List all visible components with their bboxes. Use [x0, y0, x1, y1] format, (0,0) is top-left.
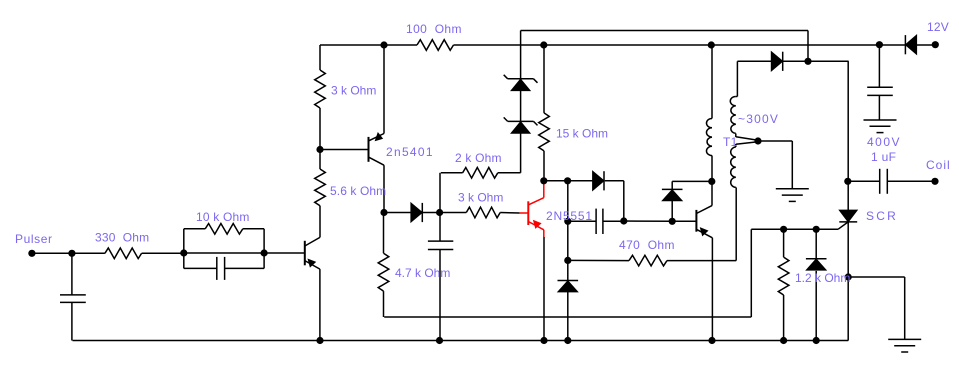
svg-text:4.7 k Ohm: 4.7 k Ohm [395, 266, 450, 280]
svg-text:~300V: ~300V [738, 112, 779, 126]
svg-text:SCR: SCR [866, 209, 898, 223]
svg-text:10 k Ohm: 10 k Ohm [196, 210, 250, 224]
svg-text:3 k Ohm: 3 k Ohm [458, 191, 503, 205]
svg-text:5.6 k Ohm: 5.6 k Ohm [330, 184, 386, 198]
svg-text:T1: T1 [723, 135, 738, 149]
svg-text:3 k Ohm: 3 k Ohm [331, 84, 376, 98]
svg-text:Pulser: Pulser [15, 232, 53, 246]
svg-text:1.2 k Ohm: 1.2 k Ohm [795, 271, 850, 285]
svg-text:2 k Ohm: 2 k Ohm [455, 151, 502, 165]
svg-text:2n5401: 2n5401 [386, 145, 434, 159]
svg-text:400V: 400V [867, 135, 901, 149]
svg-text:470 Ohm: 470 Ohm [619, 238, 675, 252]
svg-text:15 k Ohm: 15 k Ohm [556, 127, 608, 141]
svg-text:12V: 12V [927, 20, 949, 34]
svg-text:Coil: Coil [926, 158, 951, 172]
svg-text:2N5551: 2N5551 [546, 209, 593, 223]
svg-text:330 Ohm: 330 Ohm [95, 231, 149, 245]
svg-text:100 Ohm: 100 Ohm [406, 22, 462, 36]
svg-text:1 uF: 1 uF [871, 150, 896, 164]
